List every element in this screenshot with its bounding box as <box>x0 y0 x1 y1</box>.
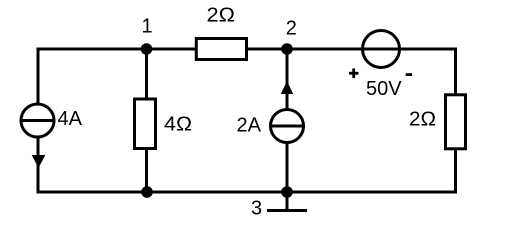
wire outer loop (top, right, bottom, left) <box>38 49 456 192</box>
plus sign of V1 <box>349 69 359 79</box>
current source I2 arrow (up) <box>281 81 293 94</box>
current source I1 4A circle <box>21 104 54 137</box>
ground bar <box>267 209 307 212</box>
wire ground stub at node 3 <box>286 192 289 211</box>
svg-text:2Ω: 2Ω <box>409 109 436 131</box>
junction dot bottom of 4ohm branch <box>141 186 153 198</box>
svg-text:1: 1 <box>141 16 152 38</box>
svg-text:3: 3 <box>251 198 262 220</box>
wire branch node1 to bottom (through 4ohm) <box>145 49 148 192</box>
resistor R3 2ohm (right vertical) <box>446 95 466 149</box>
wire branch node2 to node3 (through 2A source) <box>286 49 289 192</box>
svg-text:4A: 4A <box>58 108 83 130</box>
svg-text:4Ω: 4Ω <box>164 114 192 136</box>
current source I1 arrow (down) <box>32 155 46 168</box>
junction dot node 1 <box>141 43 153 55</box>
svg-text:2Ω: 2Ω <box>207 5 236 27</box>
junction dot node 3 <box>281 186 293 198</box>
junction dot node 2 <box>281 43 293 55</box>
current source I1 chord line <box>21 119 54 122</box>
svg-text:50V: 50V <box>366 78 402 100</box>
resistor R1 2ohm (top horizontal) <box>196 39 246 60</box>
current source I2 2A circle <box>271 110 304 143</box>
svg-text:2: 2 <box>286 18 297 40</box>
svg-text:2A: 2A <box>237 115 262 137</box>
current source I2 chord line <box>271 125 304 128</box>
voltage source V1 50V circle <box>363 31 400 68</box>
minus sign of V1 <box>406 73 412 76</box>
resistor R2 4ohm (vertical) <box>135 99 156 149</box>
